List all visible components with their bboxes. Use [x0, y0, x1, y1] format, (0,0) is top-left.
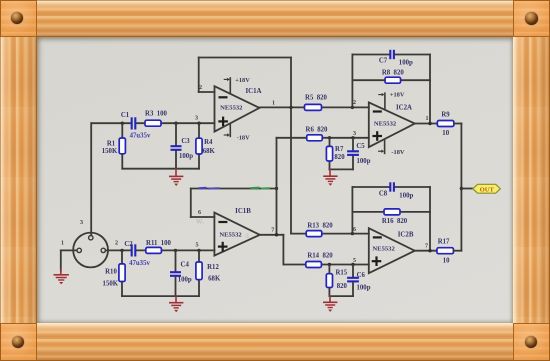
- wire R1 leads: [121, 123, 123, 169]
- svg-text:7: 7: [425, 243, 428, 249]
- wire net IN- to IC1B noninverting input: [106, 249, 215, 251]
- label C1: [121, 112, 130, 119]
- value 10 of R9: [442, 130, 449, 137]
- label R4: [204, 139, 213, 146]
- svg-text:R10: R10: [105, 268, 117, 275]
- svg-text:OUT: OUT: [480, 186, 495, 193]
- wire C8-R16 left vertical: [351, 187, 353, 234]
- nail bottom-right: [525, 336, 538, 349]
- watermark green marks: [251, 187, 271, 190]
- svg-text:C1: C1: [121, 112, 130, 119]
- svg-text:47u35v: 47u35v: [130, 133, 151, 140]
- label C4: [181, 262, 190, 269]
- svg-text:820: 820: [337, 283, 348, 290]
- svg-text:R4: R4: [204, 139, 213, 146]
- value 100p of C3: [179, 153, 193, 160]
- capacitor C6 100p: [347, 278, 359, 282]
- pin 6 of IC2B: [353, 227, 356, 233]
- svg-text:C3: C3: [181, 138, 190, 145]
- svg-text:R9: R9: [441, 112, 450, 119]
- svg-text:IC1A: IC1A: [245, 88, 261, 95]
- wire C7-R8 right vertical to IC2A output: [429, 55, 431, 124]
- node junction R1 top: [121, 122, 124, 125]
- wire C4 leads: [175, 250, 177, 296]
- svg-text:R11 100: R11 100: [146, 240, 172, 247]
- svg-text:5: 5: [353, 258, 356, 264]
- capacitor C3 100p: [171, 146, 182, 150]
- resistor R1 150K: [119, 138, 125, 154]
- value 47u35v of C1: [130, 133, 151, 140]
- wire C6 leads: [352, 265, 354, 297]
- svg-text:7: 7: [271, 228, 274, 234]
- value 150K of R10: [103, 280, 119, 287]
- resistor R3 100: [145, 120, 161, 126]
- ground below R7: [323, 176, 337, 186]
- svg-text:-18V: -18V: [237, 135, 251, 142]
- ground at XLR pin1: [54, 275, 69, 285]
- schematic paper area: [37, 37, 513, 323]
- wire net IN+ to IC1A noninverting input: [91, 122, 214, 124]
- wire XLR pin1 to ground: [61, 250, 77, 270]
- frame corner block bottom-left: [0, 323, 37, 361]
- svg-text:NE5532: NE5532: [372, 246, 395, 253]
- svg-text:100p: 100p: [357, 158, 371, 165]
- value 150K of R1: [102, 148, 118, 155]
- svg-text:100p: 100p: [399, 59, 413, 66]
- op-amp IC2A NE5532: [369, 102, 415, 147]
- wire R15 leads: [328, 265, 330, 297]
- wire IC1B feedback pin6: [191, 189, 277, 218]
- wire IC2B output to R17: [415, 250, 437, 252]
- value 100p of C4: [178, 277, 192, 284]
- pin 3 of IC1A: [195, 116, 198, 122]
- svg-text:R15: R15: [335, 269, 347, 276]
- resistor R9 10: [437, 121, 454, 127]
- power +18V of IC1A: [224, 77, 251, 93]
- wire R15 ground stem: [329, 296, 331, 302]
- wire R17 to output rail: [454, 250, 462, 252]
- pin 3 of XLR: [80, 220, 83, 226]
- svg-text:R6 820: R6 820: [306, 126, 329, 133]
- svg-text:C6: C6: [357, 272, 366, 279]
- op-amp IC1B NE5532: [214, 208, 259, 256]
- frame corner block top-right: [513, 0, 550, 37]
- wire IC1A output to IC2A inverting input: [259, 106, 368, 108]
- value 68K of R12: [208, 275, 221, 282]
- wire IC2A output to R9: [415, 123, 437, 125]
- svg-text:820: 820: [334, 154, 345, 161]
- svg-text:3: 3: [353, 131, 356, 137]
- node junction C6 top: [351, 263, 354, 266]
- wire R10 leads: [121, 250, 123, 296]
- svg-text:R7: R7: [335, 146, 344, 153]
- resistor R6 820: [307, 135, 323, 141]
- svg-text:NE5532: NE5532: [374, 120, 397, 127]
- wire IC1A feedback pin2: [199, 58, 291, 108]
- svg-text:C8: C8: [379, 191, 388, 198]
- node junction R15 top: [328, 263, 331, 266]
- resistor R10 150K: [119, 264, 125, 282]
- resistor R15 820: [326, 274, 332, 288]
- label R13 820: [307, 222, 333, 229]
- svg-text:R5 820: R5 820: [305, 95, 328, 102]
- label R11 100: [146, 240, 172, 247]
- node IC2B output junction: [428, 249, 431, 252]
- svg-text:1: 1: [425, 116, 428, 122]
- wooden frame bottom rail: [37, 323, 513, 361]
- wire upper ground bus: [122, 168, 199, 170]
- label R7: [335, 146, 344, 153]
- node junction C4 top: [174, 249, 177, 252]
- label R8 820: [382, 70, 405, 77]
- svg-text:IC1B: IC1B: [235, 208, 251, 215]
- pin 2 of IC1A: [199, 85, 202, 91]
- svg-text:C7: C7: [379, 57, 388, 64]
- wire R7-C5 bottom tie: [330, 168, 354, 170]
- node junction R7 top: [328, 136, 331, 139]
- label R5 820: [305, 95, 328, 102]
- frame corner block top-left: [0, 0, 37, 37]
- svg-text:3: 3: [80, 220, 83, 226]
- svg-text:-18V: -18V: [391, 149, 405, 156]
- resistor R8 820: [385, 77, 401, 83]
- value 68K of R4: [203, 148, 216, 155]
- svg-text:2: 2: [199, 85, 202, 91]
- capacitor C5 100p: [347, 151, 359, 155]
- pin 5 of IC1B: [195, 243, 198, 249]
- resistor R17 10: [437, 248, 454, 254]
- svg-text:150K: 150K: [103, 280, 119, 287]
- nail top-left: [11, 12, 24, 25]
- label C8: [379, 191, 388, 198]
- resistor R11 100: [146, 247, 162, 253]
- node IC2A output junction: [428, 122, 431, 125]
- node OUT junction: [460, 187, 463, 190]
- node junction R12 top: [197, 249, 200, 252]
- svg-text:R17: R17: [438, 238, 450, 245]
- value 100p of C7: [399, 59, 413, 66]
- svg-text:R8 820: R8 820: [382, 70, 405, 77]
- label C6: [357, 272, 366, 279]
- label C5: [356, 143, 365, 150]
- power -18V of IC1A: [224, 125, 250, 142]
- ground below C3: [169, 176, 183, 186]
- watermark blue marks: [199, 187, 220, 190]
- wire R16 feedback row: [352, 211, 430, 213]
- node IC1B feedback junction: [275, 187, 278, 190]
- value 820 of R7: [334, 154, 345, 161]
- power -18V of IC2A: [378, 140, 405, 156]
- svg-text:IC2A: IC2A: [396, 105, 412, 112]
- pin 7 of IC1B: [271, 228, 274, 234]
- pin 3 of IC2A: [353, 131, 356, 137]
- resistor R13 820: [306, 231, 322, 237]
- svg-text:NE5532: NE5532: [219, 232, 242, 239]
- label R1: [107, 141, 116, 148]
- resistor R14 820: [306, 262, 322, 268]
- svg-text:R14 820: R14 820: [307, 252, 333, 259]
- svg-text:10: 10: [443, 258, 450, 265]
- ground below C4: [169, 303, 183, 313]
- label R3 100: [145, 111, 168, 118]
- value 100p of C5: [357, 158, 371, 165]
- label R14 820: [307, 252, 333, 259]
- node IC1B output junction: [275, 233, 278, 236]
- svg-text:100p: 100p: [399, 193, 413, 200]
- ground below R15: [323, 302, 337, 312]
- watermark faint letters: [196, 216, 249, 241]
- label R12: [207, 264, 219, 271]
- pin 2 of XLR: [115, 240, 118, 246]
- svg-text:C5: C5: [356, 143, 365, 150]
- svg-text:47u35v: 47u35v: [129, 260, 150, 267]
- node junction C3 top: [174, 122, 177, 125]
- wooden frame top rail: [37, 0, 513, 37]
- pin 5 of IC2B: [353, 258, 356, 264]
- svg-text:1: 1: [61, 240, 64, 246]
- svg-text:10: 10: [442, 130, 449, 137]
- svg-text:6: 6: [353, 227, 356, 233]
- op-amp IC2B NE5532: [369, 228, 415, 273]
- svg-text:R3 100: R3 100: [145, 111, 168, 118]
- wire IC1B branch to IC2A noninverting input: [277, 137, 369, 139]
- node junction C7-R8 left at IC2A pin2: [351, 106, 354, 109]
- pin 1 of XLR: [61, 240, 64, 246]
- svg-text:100p: 100p: [357, 284, 371, 291]
- wire R12 leads: [198, 250, 200, 296]
- label R17: [438, 238, 450, 245]
- wire R8 feedback row: [352, 79, 430, 81]
- label C7: [379, 57, 388, 64]
- wire upper ground stem: [175, 169, 177, 177]
- wire OUT stub: [461, 188, 473, 190]
- pin 7 of IC2B: [425, 243, 428, 249]
- svg-text:+18V: +18V: [390, 91, 405, 98]
- frame corner block bottom-right: [513, 323, 550, 361]
- wooden frame left rail: [0, 37, 37, 323]
- wire R13 row to IC2B inverting input: [291, 233, 369, 235]
- wooden frame right rail: [513, 37, 550, 323]
- capacitor C1 47u/35v electrolytic: [132, 117, 136, 129]
- nail top-right: [525, 12, 538, 25]
- pin 6 of IC1B: [198, 210, 201, 216]
- wire R15-C6 bottom tie: [329, 295, 353, 297]
- svg-text:C2: C2: [124, 241, 133, 248]
- node IC1A output junction: [289, 106, 292, 109]
- label C3: [181, 138, 190, 145]
- value 47u35v of C2: [129, 260, 150, 267]
- wire R7 leads: [329, 138, 331, 170]
- svg-text:R13 820: R13 820: [307, 222, 333, 229]
- capacitor C8 100p: [390, 182, 394, 191]
- wire C7-R8 left vertical: [351, 55, 353, 108]
- wire IC1B output: [260, 235, 284, 265]
- svg-text:2: 2: [115, 240, 118, 246]
- svg-text:100p: 100p: [178, 277, 192, 284]
- label R16 820: [382, 218, 408, 225]
- wire C8 top feedback: [352, 186, 430, 188]
- nail bottom-left: [12, 336, 25, 349]
- label R15: [335, 269, 347, 276]
- value 100p of C6: [357, 284, 371, 291]
- svg-text:3: 3: [195, 116, 198, 122]
- wire XLR pin3 riser: [90, 123, 92, 235]
- svg-text:NE5532: NE5532: [220, 105, 243, 112]
- svg-text:w.: w.: [196, 216, 204, 226]
- wire R9 to output rail: [454, 124, 462, 251]
- svg-text:R16 820: R16 820: [382, 218, 408, 225]
- svg-text:R12: R12: [207, 264, 219, 271]
- capacitor C4 100p: [170, 272, 181, 276]
- wire lower ground stem: [175, 296, 177, 302]
- wire IC1A output branch down to R13: [290, 107, 292, 233]
- wire C8-R16 right vertical to IC2B output: [429, 187, 431, 251]
- wire IC1B output branch to IC2B noninverting input: [283, 264, 368, 266]
- node junction C8-R16 left at IC2B pin6: [351, 232, 354, 235]
- label R10: [105, 268, 117, 275]
- svg-text:5: 5: [195, 243, 198, 249]
- svg-text:R1: R1: [107, 141, 116, 148]
- wire C5 leads: [352, 138, 354, 170]
- wire C3 leads: [175, 123, 177, 169]
- wire lower ground bus: [122, 295, 199, 297]
- resistor R7 820: [326, 146, 332, 161]
- connector XLR input J1: [73, 233, 108, 268]
- svg-text:IC2B: IC2B: [398, 232, 414, 239]
- value 10 of R17: [443, 258, 450, 265]
- pin 2 of IC2A: [353, 100, 356, 106]
- node junction R4 top: [197, 122, 200, 125]
- capacitor C7 100p: [390, 50, 394, 59]
- value 820 of R15: [337, 283, 348, 290]
- power +18V of IC2A: [378, 91, 405, 109]
- svg-text:1: 1: [272, 100, 275, 106]
- svg-text:2: 2: [353, 100, 356, 106]
- op-amp IC1A NE5532: [215, 86, 262, 131]
- value 100p of C8: [399, 193, 413, 200]
- node junction R10 top: [120, 249, 123, 252]
- wire IC1B output riser to R6: [276, 138, 278, 235]
- wire R4 leads: [198, 123, 200, 169]
- node junction C5 top: [351, 136, 354, 139]
- pin 1 of IC2A: [425, 116, 428, 122]
- resistor R16 820: [384, 209, 400, 215]
- label R9: [441, 112, 450, 119]
- capacitor C2 47u/35v electrolytic: [132, 244, 136, 256]
- svg-text:150K: 150K: [102, 148, 118, 155]
- pin 1 of IC1A: [272, 100, 275, 106]
- svg-text:68K: 68K: [203, 148, 216, 155]
- wire R7 ground stem: [329, 169, 331, 176]
- resistor R4 68K: [196, 138, 202, 154]
- svg-text:C4: C4: [181, 262, 190, 269]
- port OUT: [473, 184, 501, 193]
- resistor R12 68K: [196, 262, 202, 280]
- resistor R5 820: [305, 104, 322, 110]
- svg-text:68K: 68K: [208, 275, 221, 282]
- wire C7 top feedback: [352, 54, 430, 56]
- svg-text:a: a: [245, 230, 249, 240]
- label R6 820: [306, 126, 329, 133]
- svg-text:+18V: +18V: [235, 77, 250, 84]
- label C2: [124, 241, 133, 248]
- wire XLR ground stem: [60, 270, 62, 275]
- svg-text:100p: 100p: [179, 153, 193, 160]
